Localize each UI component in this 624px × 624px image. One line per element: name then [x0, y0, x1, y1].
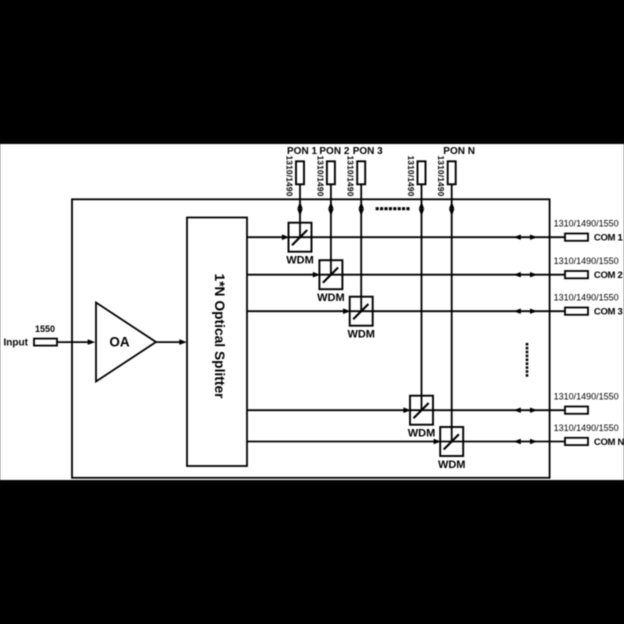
svg-text:WDM: WDM	[408, 428, 436, 440]
svg-text:1*N Optical Splitter: 1*N Optical Splitter	[212, 274, 227, 400]
svg-text:1310/1490/1550: 1310/1490/1550	[554, 256, 619, 266]
svg-text:1310/1490/1550: 1310/1490/1550	[554, 293, 619, 303]
svg-text:1550: 1550	[35, 324, 55, 334]
svg-text:Input: Input	[4, 338, 29, 349]
svg-text:WDM: WDM	[347, 329, 375, 341]
svg-text:PON 1: PON 1	[287, 146, 317, 157]
svg-text:1310/1490: 1310/1490	[406, 155, 416, 196]
svg-text:COM 2: COM 2	[594, 270, 623, 281]
svg-text:WDM: WDM	[438, 459, 466, 471]
svg-text:WDM: WDM	[317, 292, 345, 304]
svg-text:OA: OA	[109, 335, 130, 350]
svg-text:1310/1490/1550: 1310/1490/1550	[554, 392, 619, 402]
svg-text:PON 2: PON 2	[319, 146, 349, 157]
svg-text:1310/1490: 1310/1490	[315, 155, 325, 196]
svg-text:1310/1490: 1310/1490	[436, 155, 446, 196]
svg-text:WDM: WDM	[286, 255, 314, 267]
svg-text:1310/1490/1550: 1310/1490/1550	[554, 219, 619, 229]
svg-text:1310/1490: 1310/1490	[346, 155, 356, 196]
svg-text:1310/1490: 1310/1490	[284, 155, 294, 196]
svg-text:PON N: PON N	[443, 146, 475, 157]
svg-text:PON 3: PON 3	[353, 146, 383, 157]
svg-text:COM N: COM N	[594, 437, 624, 448]
svg-text:1310/1490/1550: 1310/1490/1550	[554, 423, 619, 433]
svg-text:COM 3: COM 3	[594, 307, 623, 318]
svg-text:COM 1: COM 1	[594, 233, 624, 244]
